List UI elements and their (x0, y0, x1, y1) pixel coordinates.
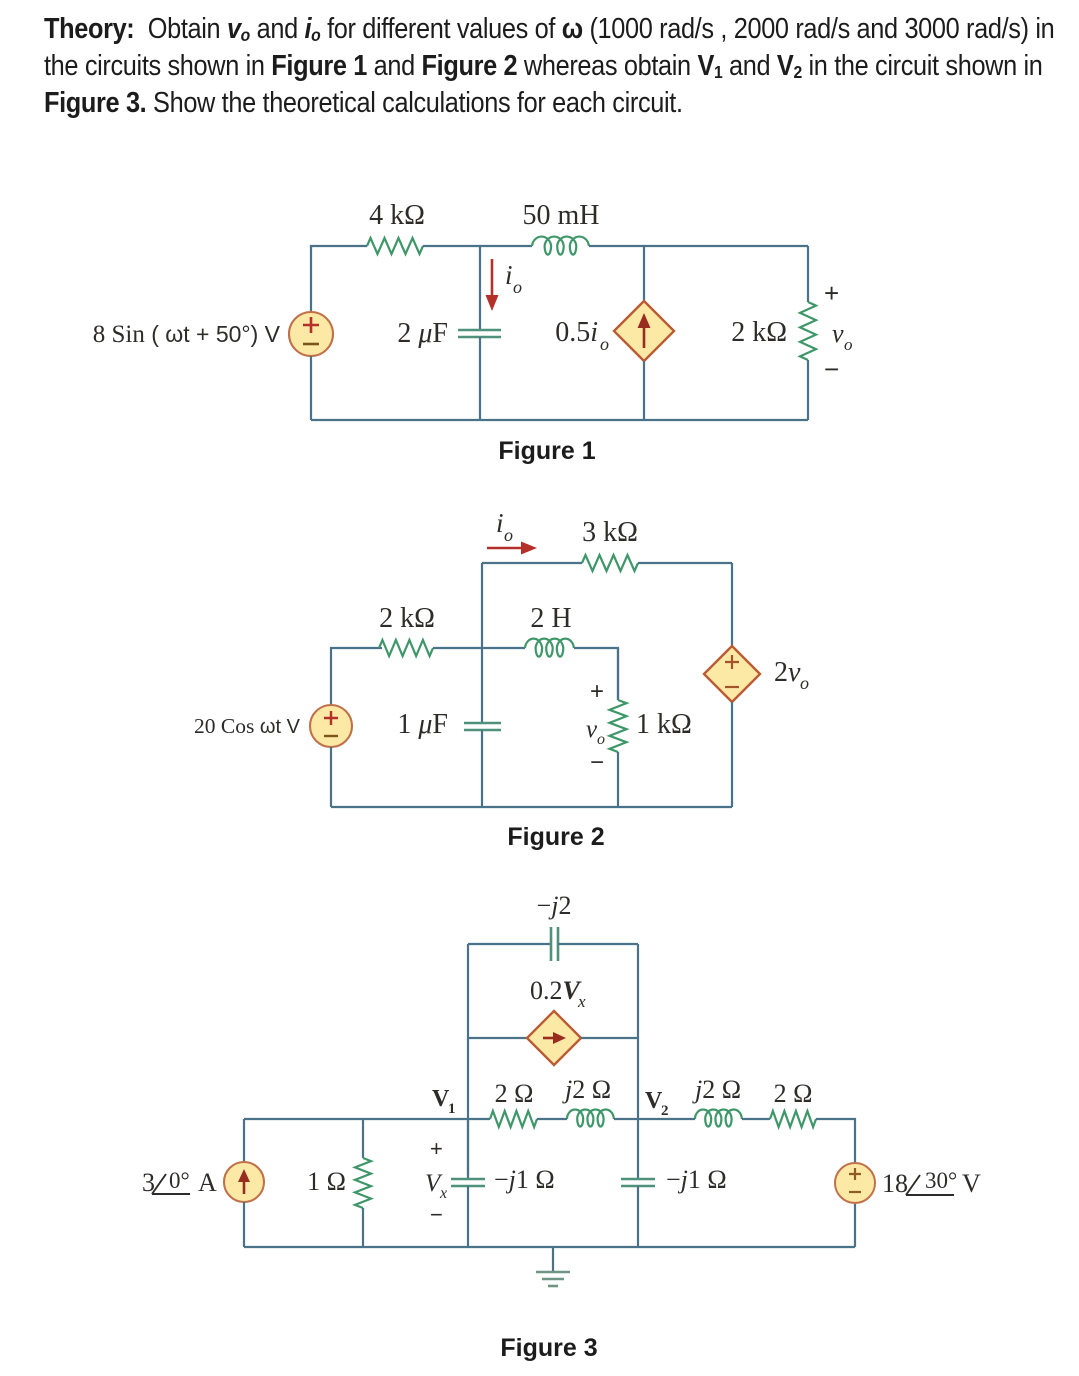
wire: Figure 2 top rail right (638, 562, 732, 564)
resistor R 4k (Figure 1) (367, 238, 423, 254)
label io (Figure 1) (505, 260, 522, 297)
current source 3/0 A circle (224, 1162, 264, 1202)
svg-text:1 Ω: 1 Ω (307, 1167, 346, 1196)
capacitor 2 uF (Figure 1) (458, 330, 501, 337)
wire: Figure 3 Vx branch upper (467, 1119, 469, 1179)
inductor j2 ohm right (Figure 3) (695, 1110, 742, 1127)
wire: Figure 1 top-left segment (311, 246, 367, 248)
label 2 Ohm right (774, 1079, 813, 1108)
caption Figure 3 (500, 1334, 597, 1362)
svg-text:2 kΩ: 2 kΩ (379, 603, 435, 634)
wire: Figure 1 dependent-source branch lower (643, 361, 645, 420)
svg-text:j2 Ω: j2 Ω (562, 1075, 611, 1104)
label 4 kOhm (369, 200, 425, 231)
svg-text:0.2V: 0.2V (530, 976, 583, 1005)
wire: Figure 2 1k branch upper (617, 648, 619, 700)
resistor R 2k (Figure 2) (379, 640, 433, 656)
wire: Figure 3 bottom rail (244, 1246, 855, 1248)
inductor 2 H (Figure 2) (525, 639, 574, 657)
wire: Figure 3 main rail between L and R (742, 1118, 770, 1120)
svg-text:2v: 2v (774, 657, 801, 688)
label 1 Ohm (307, 1167, 346, 1196)
svg-text:−j1 Ω: −j1 Ω (494, 1165, 555, 1194)
svg-text:1 μF: 1 μF (397, 709, 448, 740)
capacitor -j1 ohm left (Figure 3) (451, 1179, 485, 1186)
svg-text:0°: 0° (169, 1168, 190, 1193)
wire: Figure 3 left edge upper (243, 1119, 245, 1162)
inductor j2 ohm left (Figure 3) (567, 1110, 614, 1127)
wire: Figure 2 bottom rail (331, 806, 732, 808)
label 0.5io (555, 317, 609, 354)
wire: Figure 1 left edge lower (310, 356, 312, 420)
wire: Figure 3 Vx branch lower (467, 1186, 469, 1247)
wire: Figure 2 centre branch lower (481, 730, 483, 807)
caption Figure 2 (507, 823, 604, 851)
svg-text:4 kΩ: 4 kΩ (369, 200, 425, 231)
svg-text:A: A (198, 1168, 217, 1197)
svg-text:o: o (800, 673, 809, 693)
label 8 Sin ( wt + 50) V (93, 321, 281, 348)
svg-text:i: i (496, 508, 504, 538)
svg-text:i: i (505, 260, 513, 290)
svg-text:3 kΩ: 3 kΩ (582, 517, 638, 548)
label 2 kOhm (Figure 1) (731, 317, 787, 348)
svg-text:2: 2 (661, 1103, 669, 1119)
svg-text:+: + (430, 1136, 443, 1161)
label j2 Ohm right (692, 1075, 741, 1104)
dependent source 0.2Vx (diamond, Figure 3) (527, 1011, 581, 1065)
label 0.2Vx (530, 976, 586, 1011)
wire: Figure 2 left edge upper (331, 648, 382, 705)
resistor R 1k (Figure 2) (610, 700, 627, 752)
svg-text:+: + (590, 678, 604, 705)
wire: Figure 3 1-ohm branch upper (362, 1119, 364, 1158)
label Vx with polarity (425, 1136, 447, 1227)
resistor R 2 ohm right (Figure 3) (770, 1111, 816, 1127)
resistor R 3k (Figure 2) (582, 555, 638, 571)
svg-text:v: v (832, 319, 844, 348)
wire: Figure 2 middle rail centre (433, 647, 525, 649)
voltage source Vs2 (20 Cos) circle (310, 705, 352, 747)
label 50 mH (523, 200, 600, 231)
label -j2 (537, 891, 572, 920)
wire: Figure 1 right edge lower (807, 360, 809, 420)
wire: Figure 3 main rail between R and L (537, 1118, 567, 1120)
label V2 node (645, 1088, 669, 1119)
svg-text:Figure 2: Figure 2 (507, 823, 604, 851)
label 2 kOhm (Figure 2) (379, 603, 435, 634)
svg-text:50 mH: 50 mH (523, 200, 600, 231)
label V1 node (432, 1086, 456, 1117)
inductor 50 mH (Figure 1) (532, 237, 589, 255)
svg-text:o: o (844, 335, 853, 354)
label 2 H (530, 603, 571, 634)
label 2vo (774, 657, 809, 693)
svg-text:V: V (962, 1169, 981, 1198)
wire: Figure 1 capacitor branch upper (479, 246, 481, 330)
svg-text:8 Sin ( ωt + 50°) V: 8 Sin ( ωt + 50°) V (93, 321, 281, 348)
svg-text:x: x (439, 1185, 447, 1202)
wire: Figure 2 right edge upper (731, 563, 733, 646)
label + vo - (Figure 2) (586, 678, 605, 776)
svg-text:o: o (600, 334, 609, 354)
svg-text:−j1 Ω: −j1 Ω (666, 1165, 727, 1194)
svg-text:2 H: 2 H (530, 603, 571, 634)
wire: Figure 3 main rail at V2 (614, 1118, 695, 1120)
voltage source Vs1 (8 Sin) circle (289, 312, 333, 356)
wire: Figure 3 right edge lower (854, 1204, 856, 1247)
wire: Figure 2 top rail left (482, 562, 582, 564)
wire: Figure 3 diamond row right (581, 1037, 638, 1039)
svg-text:20 Cos ωt V: 20 Cos ωt V (194, 714, 301, 738)
svg-text:2 μF: 2 μF (397, 318, 448, 349)
svg-text:Figure 1: Figure 1 (498, 437, 595, 465)
resistor R 2k (Figure 1 output) (800, 302, 816, 360)
wire: Figure 1 dependent-source branch upper (643, 246, 645, 302)
svg-text:−: − (430, 1202, 443, 1227)
svg-text:o: o (513, 277, 522, 297)
wire: Figure 2 right edge lower (731, 702, 733, 807)
wire: Figure 2 middle rail right + corner down (574, 648, 618, 700)
label 1 uF (397, 709, 448, 740)
wire: Figure 3 second cap branch upper (637, 1119, 639, 1179)
wire: Figure 3 main rail left (244, 1118, 490, 1120)
current arrow io (Figure 2) (487, 542, 537, 555)
label 2 uF (397, 318, 448, 349)
svg-text:2 kΩ: 2 kΩ (731, 317, 787, 348)
svg-text:x: x (577, 992, 586, 1011)
label -j1 Ohm left (494, 1165, 555, 1194)
wire: Figure 2 left edge lower (330, 747, 332, 807)
wire: Figure 1 top right segment (589, 245, 808, 247)
svg-text:−j2: −j2 (537, 891, 572, 920)
label j2 Ohm left (562, 1075, 611, 1104)
wire: Figure 3 second cap branch lower (637, 1186, 639, 1247)
wire: Figure 1 left edge upper (310, 246, 312, 312)
label -j1 Ohm right (666, 1165, 727, 1194)
svg-text:o: o (597, 731, 605, 748)
svg-text:18: 18 (882, 1169, 908, 1198)
dependent current source 0.5io (diamond, Figure 1) (614, 301, 674, 361)
wire: Figure 3 top rail left (468, 943, 551, 945)
svg-text:−: − (590, 749, 604, 776)
wire: Figure 3 diamond row left (468, 1037, 527, 1039)
resistor R 2 ohm left (Figure 3) (490, 1111, 537, 1127)
wire: Figure 1 bottom rail (311, 419, 808, 421)
svg-text:+: + (824, 278, 839, 308)
label 2 Ohm left (495, 1079, 534, 1108)
capacitor -j2 (Figure 3 top) (551, 927, 558, 961)
problem statement paragraph (44, 11, 1065, 122)
label + vo - (Figure 1 output) (824, 278, 853, 384)
svg-text:2 Ω: 2 Ω (495, 1079, 534, 1108)
wire: Figure 3 main rail right corner (816, 1119, 855, 1164)
resistor R 1 ohm (Figure 3) (355, 1158, 371, 1208)
svg-text:0.5i: 0.5i (555, 317, 598, 348)
label 20 Cos wt V (194, 714, 301, 738)
wire: Figure 3 1-ohm branch lower (362, 1208, 364, 1247)
svg-text:o: o (504, 525, 513, 545)
label 1 kOhm (636, 709, 692, 740)
voltage source 18/30 V circle (835, 1163, 875, 1203)
ground (Figure 3) (536, 1247, 570, 1286)
wire: Figure 1 capacitor branch lower (479, 337, 481, 420)
capacitor 1 uF (Figure 2) (464, 723, 501, 730)
svg-text:1: 1 (448, 1101, 456, 1117)
wire: Figure 1 top middle segment (423, 245, 532, 247)
dependent voltage source 2vo (diamond, Figure 2) (704, 646, 760, 702)
label 18 angle 30 V (882, 1168, 981, 1198)
wire: Figure 2 centre branch upper (481, 563, 483, 723)
label io (Figure 2) (496, 508, 513, 545)
svg-text:1 kΩ: 1 kΩ (636, 709, 692, 740)
svg-text:30°: 30° (925, 1168, 957, 1193)
svg-text:−: − (824, 354, 839, 384)
wire: Figure 3 top rail right (558, 943, 638, 945)
caption Figure 1 (498, 437, 595, 465)
svg-text:2 Ω: 2 Ω (774, 1079, 813, 1108)
label 3 kOhm (582, 517, 638, 548)
wire: Figure 3 top box right edge (637, 944, 639, 1119)
current arrow io (Figure 1) (486, 259, 499, 311)
wire: Figure 3 left edge lower (243, 1202, 245, 1247)
wire: Figure 2 1k branch lower (617, 752, 619, 807)
label 3 angle 0 A (142, 1168, 217, 1197)
svg-text:Figure 3: Figure 3 (500, 1334, 597, 1362)
capacitor -j1 ohm right (Figure 3) (621, 1179, 655, 1186)
svg-text:j2 Ω: j2 Ω (692, 1075, 741, 1104)
wire: Figure 1 right edge upper (807, 246, 809, 302)
wire: Figure 3 top box left edge (467, 944, 469, 1175)
